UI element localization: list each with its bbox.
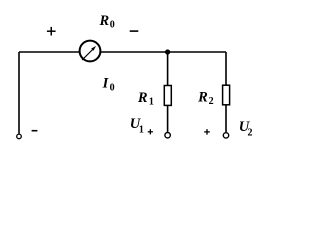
terminal: U1 open circle — [165, 133, 170, 138]
wire: R2 branch vertical — [225, 52, 227, 132]
svg-text:2: 2 — [209, 96, 214, 107]
svg-text:2: 2 — [248, 128, 253, 139]
terminal: U2 open circle — [223, 133, 228, 138]
node: junction dot on top wire — [165, 49, 170, 54]
wire: left vertical drop — [18, 52, 20, 134]
label: − (top, source negative) — [130, 30, 139, 32]
label: + (U1 terminal polarity) — [148, 129, 153, 134]
svg-text:R: R — [99, 13, 110, 29]
svg-text:R: R — [137, 90, 148, 106]
label: + (U2 terminal polarity) — [204, 129, 210, 135]
svg-text:R: R — [197, 89, 208, 105]
svg-text:0: 0 — [110, 83, 115, 94]
svg-text:1: 1 — [149, 97, 154, 108]
resistor R2 (rectangle) — [223, 85, 230, 105]
resistor R1 (rectangle) — [164, 86, 171, 106]
terminal: bottom-left open circle — [17, 134, 22, 139]
svg-text:0: 0 — [110, 19, 115, 30]
label: + (top, source positive) — [47, 27, 56, 36]
source I0: circle with diagonal arrow (internal resistance R0) — [80, 41, 101, 62]
wire: R1 branch vertical — [167, 52, 169, 132]
svg-text:1: 1 — [139, 125, 144, 136]
label: − (bottom-left terminal polarity) — [32, 130, 38, 132]
wire: top horizontal from left corner to right corner — [19, 51, 226, 53]
